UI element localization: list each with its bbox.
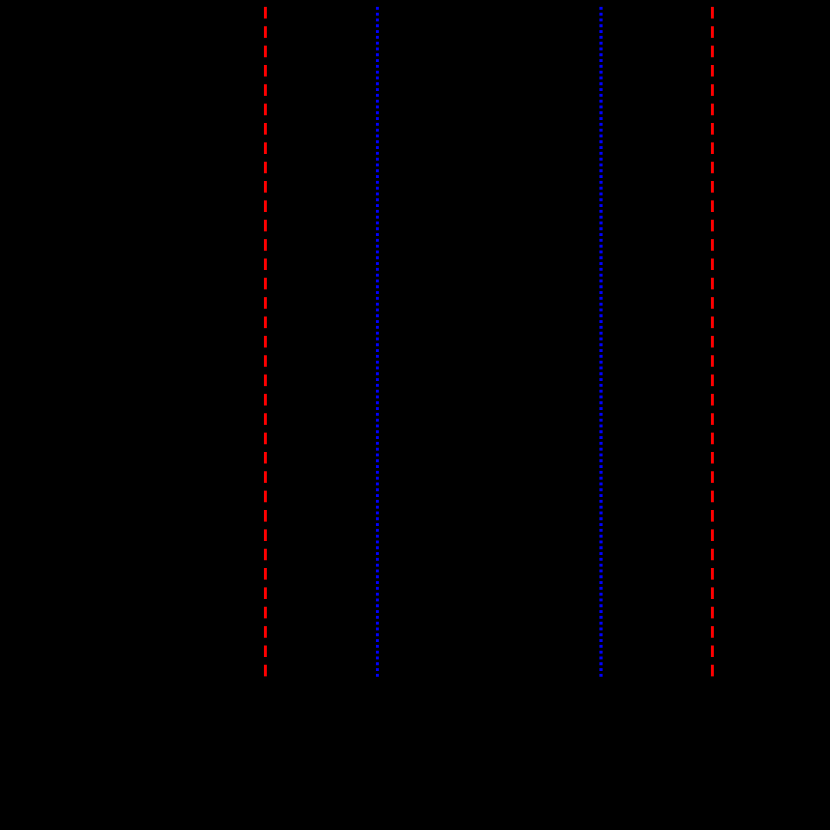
blue dotted vline 2 (x=601.0) xyxy=(599,7,602,678)
red dashed vline 2 (x=712.4) xyxy=(711,7,714,678)
red dashed vline 1 (x=265.4) xyxy=(264,7,267,678)
blue dotted vline 1 (x=377.4) xyxy=(376,7,379,678)
